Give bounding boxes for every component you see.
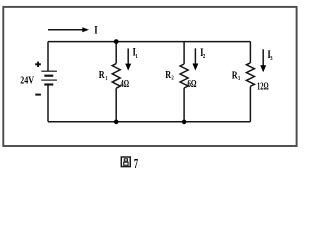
svg-text:24V: 24V [20,74,34,86]
svg-text:7: 7 [134,157,138,172]
svg-text:1: 1 [105,75,107,82]
svg-text:2: 2 [172,75,174,82]
svg-text:2: 2 [203,53,205,60]
svg-text:I: I [94,22,98,36]
svg-text:4Ω: 4Ω [120,79,129,90]
svg-text:3: 3 [238,75,241,82]
svg-text:6Ω: 6Ω [187,79,196,90]
svg-text:12Ω: 12Ω [257,82,269,93]
svg-text:R: R [99,70,105,81]
svg-text:3: 3 [270,55,273,62]
svg-text:1: 1 [135,53,137,60]
